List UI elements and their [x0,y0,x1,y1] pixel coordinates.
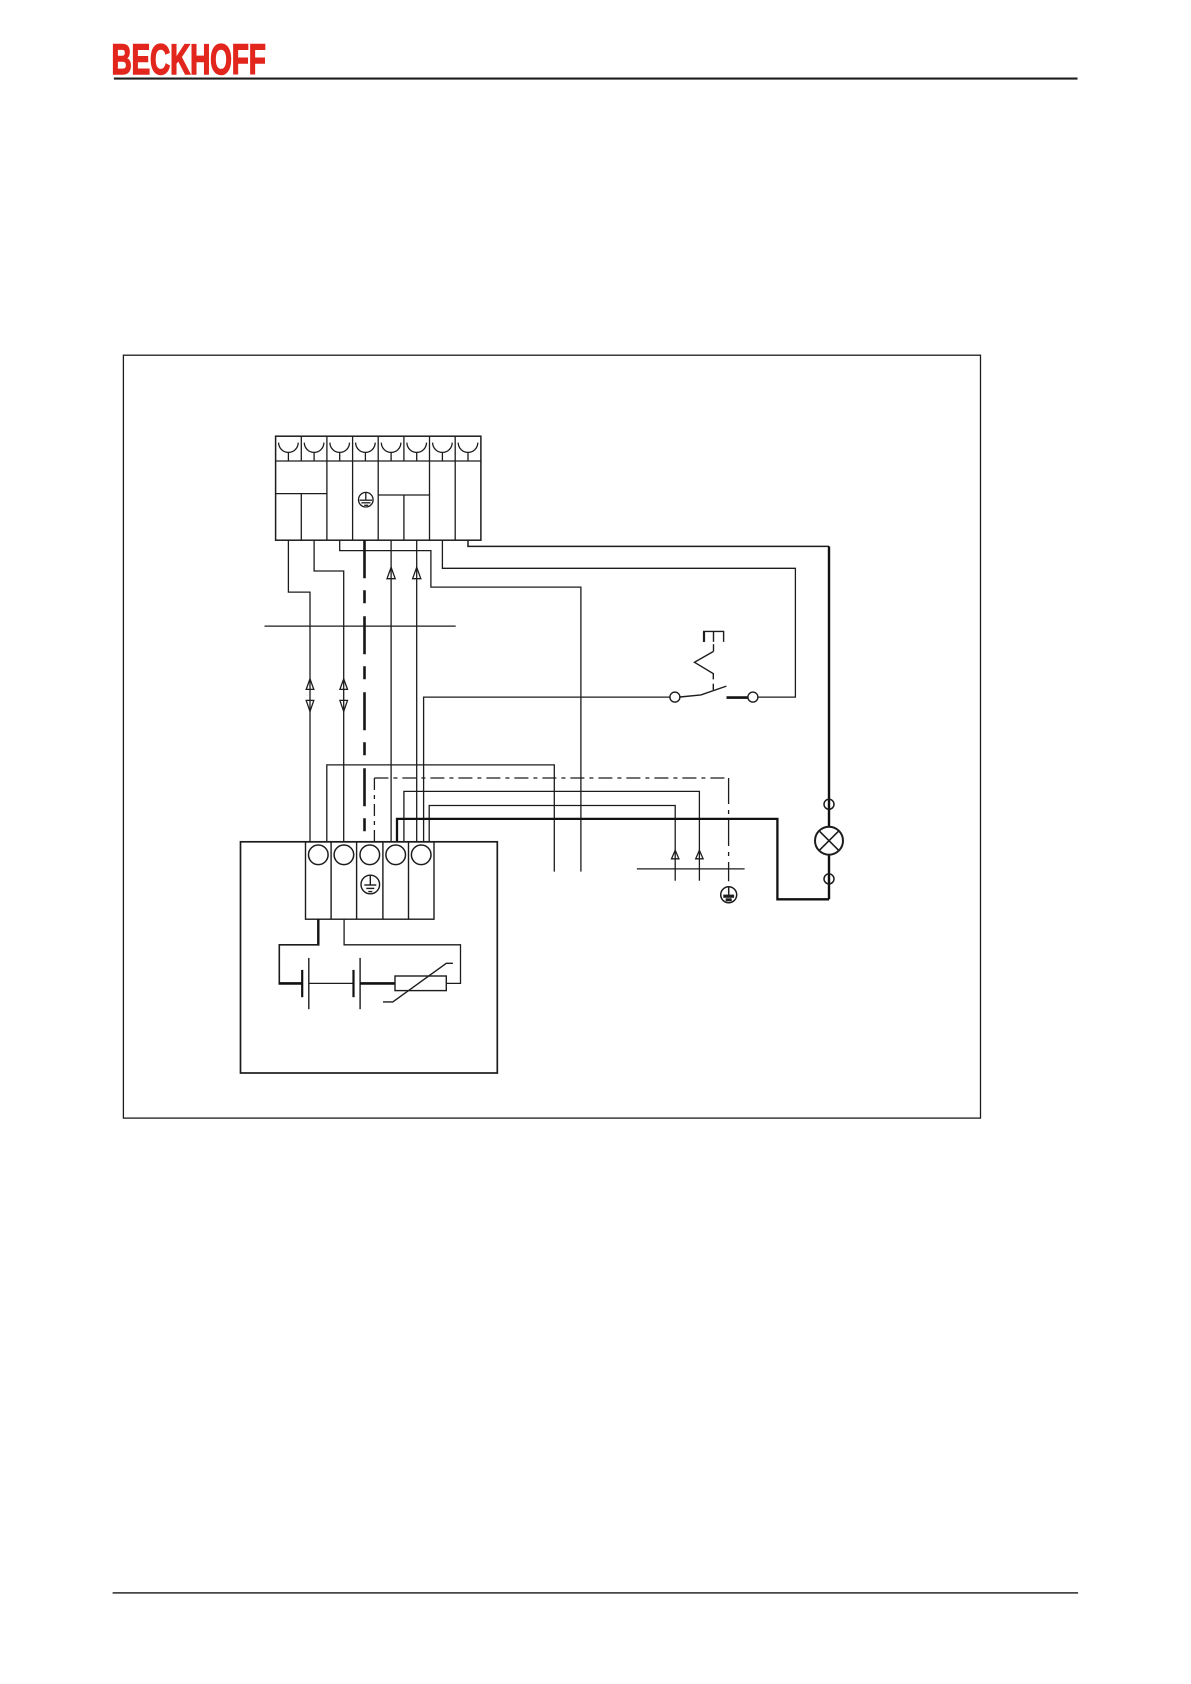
wire from X1 terminal 5 to XB terminal 4 [390,540,392,842]
arrow up on right wire a [672,850,679,859]
wire to battery left [279,945,319,984]
XB screw circle 3 [360,845,380,865]
wire bus XB terminal 5 to arrow wire [429,806,675,881]
terminal X1 contact cup 3 [330,443,350,461]
XB dividers [331,842,408,919]
X1 body full dividers [327,461,455,540]
wire from X1 terminal 6 to XB terminal 5 [416,540,418,842]
terminal X1 top-row dividers [301,436,455,461]
terminal X1 contact cup 2 [304,443,324,461]
arrow down on wire 1 [306,700,314,711]
lamp H1 [815,827,843,855]
wire from X1 terminal 1 to XB terminal 1 [288,540,310,842]
outer frame [123,355,980,1118]
switch S1 thermal element [695,631,724,690]
terminal X1 contact cup 7 [433,443,453,461]
lamp terminal circle bottom [824,874,834,884]
svg-text:BECKHOFF: BECKHOFF [112,35,266,84]
battery link wire [309,982,354,984]
terminal block XB outline [306,842,435,919]
wire XB terminal 2 to varistor [344,919,460,983]
PE symbol in X1 terminal 4 [359,492,374,507]
varistor R1 body [395,976,446,991]
cable marking line right [637,868,745,870]
thick lamp wire [828,546,830,899]
XB screw circle 2 [334,845,354,865]
switch S1 lever [680,686,727,697]
wire from X1 terminal 8 to lamp [468,540,829,546]
XB screw circle 1 [309,845,329,865]
wire from X1 terminal 2 to XB terminal 2 [314,540,344,842]
terminal X1 contact cup 5 [381,443,401,461]
device box [241,842,498,1073]
battery G2 long plate [359,958,361,1009]
PE symbol in XB terminal 3 [361,875,380,894]
battery G1 short plate [301,970,303,997]
arrow down on wire 2 [340,700,348,711]
header rule [114,78,1078,80]
terminal block X1 top row line [276,460,481,462]
thick wire battery to varistor [360,982,395,985]
battery G1 long plate [308,958,310,1009]
lamp H1 cross [819,831,839,851]
earth symbol right [721,887,737,903]
terminal X1 contact cup 4 [356,443,376,461]
dash-dot shield wire XB terminal 3 to earth [373,778,375,842]
switch S1 fixed contact [727,696,748,699]
switch S1 right contact circle [748,692,758,702]
arrow up on wire 1 [306,679,314,690]
X1 cells 1-2 internal divider [276,494,327,541]
varistor R1 diagonal [383,963,453,1002]
wire from X1 terminal 7 to switch [442,540,795,697]
thick wire XB terminal 4 to lamp return [397,819,829,899]
terminal X1 contact cup 6 [407,443,427,461]
arrow up on right wire b [696,850,703,859]
switch S1 left contact circle [670,692,680,702]
X1 cells 5-6 internal divider [378,495,429,540]
XB screw circle 5 [411,845,431,865]
arrow up on wire 6 [413,567,421,578]
terminal block X1 outline [276,436,481,540]
thick wire into battery minus plate [279,982,303,985]
XB screw circle 4 [386,845,406,865]
lamp terminal circle top [824,799,834,809]
wire from X1 terminal 3 (unconnected end) [340,540,581,871]
wire switch to XB terminal 5 [424,697,670,842]
PE dash-dot wire X1 terminal 4 to XB terminal 3 [363,540,366,842]
terminal X1 contact cup 1 [279,443,299,461]
wire bus XB terminal 4 to arrow wire [404,791,700,880]
wire bus XB terminal 1 to hanging end [327,765,555,872]
cable marking line upper [265,625,456,627]
terminal X1 contact cup 8 [458,443,478,461]
BECKHOFF logo [112,35,266,84]
battery G2 short plate [352,970,354,997]
arrow up on wire 5 [387,567,395,578]
thick wire XB terminal 1 down [317,919,319,945]
arrow up on wire 2 [340,679,348,690]
footer rule [113,1592,1079,1593]
